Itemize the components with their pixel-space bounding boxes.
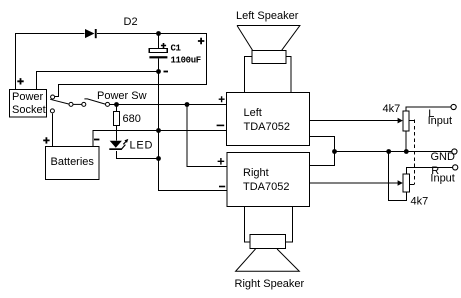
svg-text:Socket: Socket	[12, 104, 46, 116]
potentiometer 4k7 bottom	[398, 174, 429, 208]
svg-text:Power Sw: Power Sw	[97, 90, 147, 102]
wire supply- from socket terminal2 to C1 minus	[37, 72, 159, 90]
wire pot1 bottom to gnd	[405, 132, 407, 152]
terminal L input	[451, 104, 456, 109]
wire pot1 top to L input	[406, 107, 451, 112]
wire speaker bracket left (top speaker)	[244, 57, 252, 93]
wire speaker bracket right (bottom speaker)	[286, 207, 293, 243]
wire pot1 gang tick	[409, 120, 414, 122]
svg-text:Input: Input	[428, 115, 452, 127]
plus sign supply rectangle corner	[198, 38, 204, 44]
potentiometer 4k7 top	[383, 103, 409, 131]
svg-text:TDA7052: TDA7052	[243, 181, 289, 193]
terminal R input	[453, 165, 458, 170]
wire right amp to pot2 wiper	[310, 182, 399, 184]
svg-text:GND: GND	[431, 151, 456, 163]
wire C1 top lead	[158, 34, 160, 49]
wire negative rail x=158.5 down to right amp minus	[159, 72, 228, 191]
node branch right amp	[185, 102, 190, 107]
svg-text:LED: LED	[130, 140, 154, 152]
diode D2	[85, 16, 138, 38]
right speaker	[235, 235, 305, 291]
wire R input to pot2 top	[406, 168, 452, 175]
wire speaker bracket left (bottom speaker)	[244, 207, 250, 243]
wire battery plus lead	[52, 114, 54, 147]
wire supply+ top run from power socket to C1 rectangle	[16, 34, 207, 97]
wire 680 top lead	[116, 105, 118, 112]
svg-text:D2: D2	[124, 16, 138, 28]
svg-text:4k7: 4k7	[411, 196, 429, 208]
svg-text:1100uF: 1100uF	[171, 56, 201, 66]
node y158 rail	[156, 156, 161, 161]
wire speaker bracket right (top speaker)	[286, 57, 291, 93]
capacitor C1	[149, 43, 200, 66]
wire battery minus to left amp minus	[93, 131, 227, 147]
wire LED cathode to rail	[117, 151, 159, 159]
wire 680 to LED lead	[116, 126, 118, 141]
svg-text:Input: Input	[430, 173, 454, 185]
svg-text:C1: C1	[171, 44, 182, 54]
wire gnd rail	[335, 151, 452, 153]
svg-text:Right: Right	[243, 167, 269, 179]
op-amp U2 right TDA7052	[218, 153, 310, 207]
node y130 rail	[156, 128, 161, 133]
wire C1 bottom lead	[158, 59, 160, 72]
power socket box	[10, 78, 47, 117]
wire left amp gnd branch	[310, 137, 335, 166]
dashed gang link	[414, 120, 416, 185]
terminal GND	[452, 149, 457, 154]
wire branch to right amp plus	[187, 105, 227, 167]
svg-text:TDA7052: TDA7052	[244, 121, 290, 133]
svg-text:Right Speaker: Right Speaker	[235, 278, 305, 290]
left speaker	[236, 10, 300, 63]
wire switched line y=104 to left amp plus	[110, 104, 227, 106]
svg-text:Batteries: Batteries	[51, 156, 95, 168]
svg-text:Power: Power	[12, 91, 44, 103]
node C1 top	[156, 31, 161, 36]
svg-text:4k7: 4k7	[383, 103, 401, 115]
switch Power Sw	[50, 95, 109, 113]
wire pot2 gang tick	[410, 184, 415, 186]
svg-text:680: 680	[123, 113, 141, 125]
node C1 bottom	[156, 69, 161, 74]
svg-text:Left Speaker: Left Speaker	[236, 10, 299, 22]
svg-text:Left: Left	[244, 107, 262, 119]
LED	[109, 139, 153, 152]
wire pot2 bottom gnd loop	[389, 152, 407, 201]
op-amp U1 left TDA7052	[217, 93, 310, 146]
node gnd rail left	[332, 149, 337, 154]
node gnd rail pot1	[404, 149, 409, 154]
node gnd rail pot2 loop	[386, 149, 391, 154]
minus sign C1 junction	[164, 71, 169, 73]
resistor 680	[113, 112, 141, 126]
batteries box	[43, 137, 99, 179]
node switch output / 680	[114, 102, 119, 107]
wire left amp to pot1 wiper	[310, 120, 399, 122]
